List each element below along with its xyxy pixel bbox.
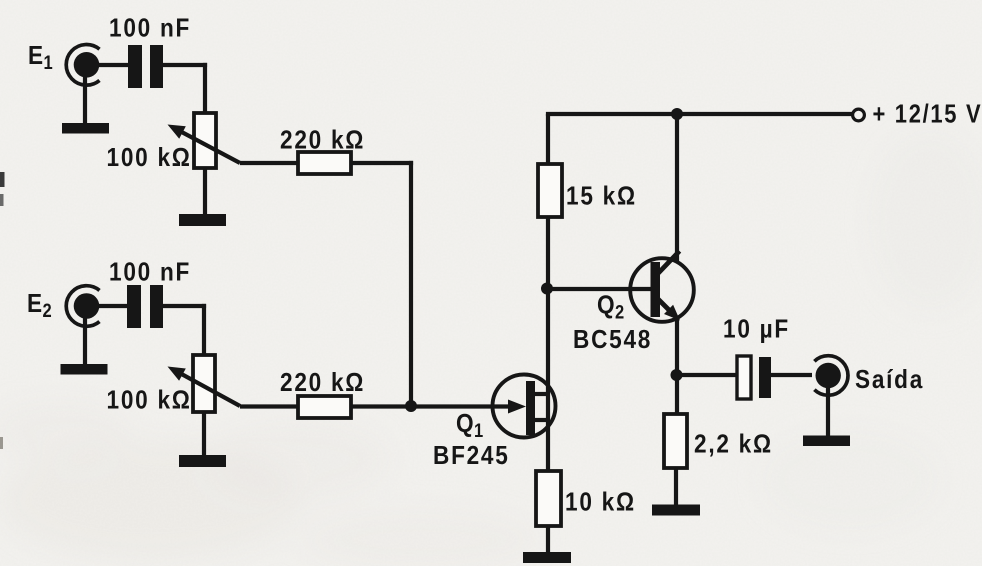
transistor Q1 source stub bbox=[535, 418, 550, 422]
resistor R5 2,2 kΩ bbox=[664, 414, 687, 468]
potentiometer P2 body 100 kΩ bbox=[193, 355, 215, 412]
wire jack E2 to C2 bbox=[85, 304, 127, 308]
svg-text:10 kΩ: 10 kΩ bbox=[565, 488, 636, 517]
wire P2 wiper to R2 bbox=[240, 404, 298, 408]
value label 100 kΩ (P2) bbox=[107, 386, 192, 415]
value label 100 kΩ (P1) bbox=[107, 144, 192, 173]
wire emitter to C3 bbox=[677, 373, 737, 377]
label Saída bbox=[855, 366, 924, 395]
junction supply to collector bbox=[671, 108, 683, 120]
potentiometer P1 body 100 kΩ bbox=[194, 113, 216, 168]
wire C2 to potentiometer P2 bbox=[163, 304, 206, 356]
wire P1 to ground bbox=[203, 168, 207, 214]
value label 10 kΩ (R4) bbox=[565, 488, 636, 517]
label BC548 bbox=[573, 326, 652, 355]
potentiometer P2 wiper arrow bbox=[168, 367, 241, 407]
capacitor C3 10 µF bbox=[737, 356, 771, 399]
wire collector of Q2 bbox=[675, 114, 679, 262]
potentiometer P1 wiper arrow bbox=[168, 125, 241, 164]
wire Q1 drain node to Q2 base bbox=[548, 287, 651, 291]
label + 12/15 V bbox=[873, 100, 982, 129]
label BF245 bbox=[433, 442, 510, 471]
ground wire below jack E1 bbox=[83, 74, 87, 124]
transistor Q2 emitter lead bbox=[658, 299, 680, 321]
svg-text:100 nF: 100 nF bbox=[109, 258, 191, 287]
transistor Q1 body circle bbox=[493, 375, 556, 438]
transistor Q2 collector lead bbox=[658, 251, 680, 274]
label E2 bbox=[27, 290, 52, 322]
input jack E2 bbox=[66, 286, 99, 327]
value label 220 kΩ (R1) bbox=[280, 126, 365, 155]
value label 10 µF (C3) bbox=[723, 315, 790, 344]
ground below P1 bbox=[179, 214, 226, 226]
supply terminal circle bbox=[853, 109, 865, 121]
wire P2 to ground bbox=[202, 412, 206, 455]
wire jack E1 to C1 bbox=[86, 63, 129, 67]
capacitor C1 100 nF plates bbox=[128, 45, 163, 88]
capacitor C2 100 nF plates bbox=[127, 285, 163, 328]
ground wire below output jack bbox=[826, 384, 830, 436]
wire emitter of Q2 bbox=[675, 318, 679, 414]
ground below jack E2 bbox=[61, 364, 108, 375]
label Q1 bbox=[456, 410, 484, 442]
svg-text:BF245: BF245 bbox=[433, 442, 510, 471]
wire C3 to output jack bbox=[771, 373, 812, 377]
svg-text:100 kΩ: 100 kΩ bbox=[107, 144, 192, 173]
wire P1 wiper to R1 bbox=[240, 161, 298, 165]
wire R5 to ground bbox=[674, 468, 678, 505]
ground wire below jack E2 bbox=[83, 316, 87, 365]
ground below jack E1 bbox=[62, 123, 109, 134]
svg-text:2,2 kΩ: 2,2 kΩ bbox=[694, 430, 773, 459]
svg-text:Saída: Saída bbox=[855, 366, 924, 395]
ground below P2 bbox=[179, 455, 226, 467]
transistor Q1 drain stub bbox=[535, 392, 550, 396]
ground below output jack bbox=[803, 436, 850, 447]
ground below R4 bbox=[523, 552, 571, 563]
wire drain-source column bbox=[546, 114, 550, 471]
value label 220 kΩ (R2) bbox=[280, 369, 365, 398]
resistor R3 15 kΩ bbox=[538, 164, 562, 217]
gate arrow of Q1 bbox=[508, 400, 526, 414]
junction summing node bbox=[405, 400, 417, 412]
transistor Q1 channel bar bbox=[526, 381, 535, 435]
svg-text:+ 12/15 V: + 12/15 V bbox=[873, 100, 982, 129]
svg-text:220 kΩ: 220 kΩ bbox=[280, 126, 365, 155]
resistor R4 10 kΩ bbox=[536, 471, 561, 526]
wire R4 to ground bbox=[546, 526, 550, 553]
wire R1 to summing node bbox=[351, 161, 413, 406]
wire C1 to potentiometer P1 bbox=[163, 63, 207, 114]
junction Q1 drain / Q2 base bbox=[541, 283, 553, 295]
value label 2,2 kΩ (R5) bbox=[694, 430, 773, 459]
resistor R1 220 kΩ bbox=[298, 152, 351, 174]
label E1 bbox=[28, 42, 53, 74]
wire +V supply rail bbox=[546, 112, 852, 116]
svg-text:100 kΩ: 100 kΩ bbox=[107, 386, 192, 415]
svg-text:10 µF: 10 µF bbox=[723, 315, 790, 344]
output jack Saída bbox=[814, 356, 848, 396]
svg-text:BC548: BC548 bbox=[573, 326, 652, 355]
junction emitter node bbox=[671, 369, 683, 381]
resistor R2 220 kΩ bbox=[298, 396, 351, 418]
svg-text:15 kΩ: 15 kΩ bbox=[566, 182, 637, 211]
value label 15 kΩ (R3) bbox=[566, 182, 637, 211]
transistor Q2 body circle bbox=[630, 258, 694, 322]
wire R2 to gate of Q1 bbox=[351, 404, 512, 408]
value label 100 nF (E1) bbox=[109, 14, 191, 43]
input jack E1 bbox=[66, 45, 99, 86]
ground below R5 bbox=[652, 505, 700, 516]
svg-text:100 nF: 100 nF bbox=[109, 14, 191, 43]
svg-text:220 kΩ: 220 kΩ bbox=[280, 369, 365, 398]
label Q2 bbox=[597, 291, 625, 323]
value label 100 nF (E2) bbox=[109, 258, 191, 287]
transistor Q2 base bar bbox=[651, 262, 661, 317]
